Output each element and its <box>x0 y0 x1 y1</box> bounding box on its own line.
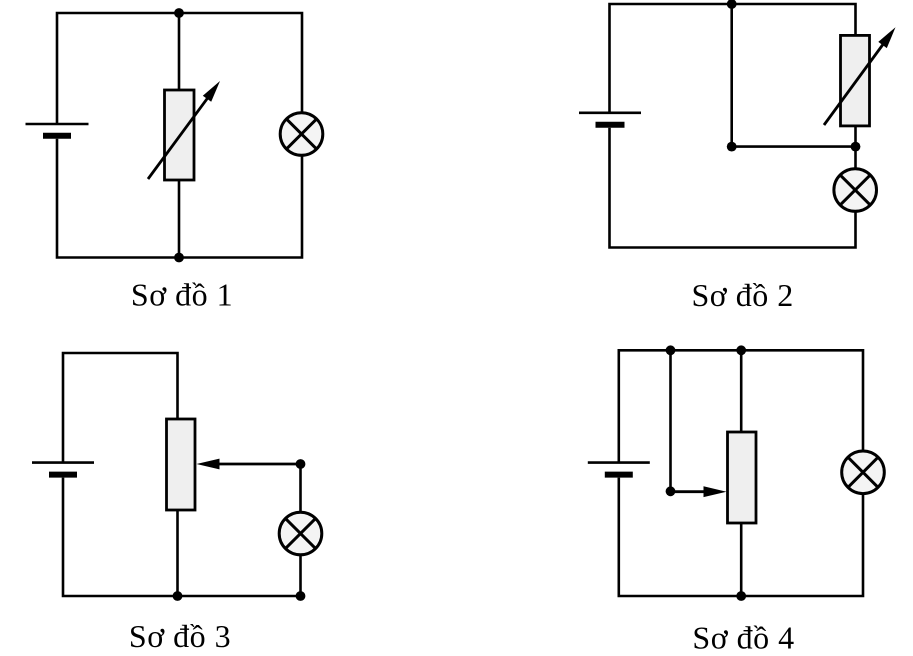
svg-text:Sơ đồ 2: Sơ đồ 2 <box>691 277 793 313</box>
node: middle junction D2 <box>727 142 737 152</box>
svg-text:Sơ đồ 1: Sơ đồ 1 <box>131 277 233 313</box>
lamp L3 <box>279 512 322 555</box>
wire: pot branch lower D3 <box>176 510 179 596</box>
lamp L1 <box>280 113 323 156</box>
battery B1 short plate <box>43 133 71 139</box>
node: top junction D2 <box>727 0 737 9</box>
wire: wiper branch vertical D4 <box>669 350 672 491</box>
potentiometer R3 body <box>167 419 196 510</box>
node: wiper junction D3 <box>296 459 306 469</box>
node: lamp bottom junction D3 <box>296 591 306 601</box>
wire: lower loop run D2 (right wire from lamp, bottom wire, left wire to battery) <box>610 128 856 248</box>
battery B4 long plate <box>588 461 650 464</box>
battery B1 long plate <box>26 123 89 126</box>
battery B2 long plate <box>579 112 641 115</box>
wire: pot branch upper D4 <box>740 350 743 432</box>
node: top junction D1 <box>174 8 184 18</box>
wire: lower loop run D3 (left wire from battery, bottom wire) <box>63 478 301 596</box>
battery B3 long plate <box>32 461 94 464</box>
variable resistor R1 arrow <box>148 81 220 179</box>
node: top junction B D4 <box>736 345 746 355</box>
battery B4 short plate <box>605 472 633 478</box>
variable resistor R1 body <box>165 90 195 180</box>
wire: lamp branch lower D3 <box>299 555 302 596</box>
wire: middle branch upper D1 <box>178 13 181 90</box>
wire: upper loop run D2 (left wire, top wire, right wire to resistor) <box>610 4 856 113</box>
node: top junction A D4 <box>666 345 676 355</box>
node: wiper junction D4 <box>666 486 676 496</box>
wire: lamp branch upper D3 <box>299 464 302 512</box>
potentiometer R4 body <box>728 432 757 523</box>
potentiometer R3 wiper arrow <box>197 459 301 470</box>
wire: lower loop run D1 (right wire from lamp, bottom wire, left wire to battery) <box>57 139 302 258</box>
node: right junction D2 <box>851 142 861 152</box>
node: bottom junction D4 <box>736 591 746 601</box>
node: bottom junction D1 <box>174 253 184 263</box>
wire: upper loop run D4 (left wire, top wire, right wire to lamp) <box>619 350 863 462</box>
variable resistor R2 arrow <box>824 27 896 125</box>
svg-text:Sơ đồ 4: Sơ đồ 4 <box>692 619 794 655</box>
wire: pot branch lower D4 <box>740 523 743 596</box>
wire: middle branch lower D1 <box>178 180 181 258</box>
wire: upper loop run D1 (left wire, top wire, right wire to lamp) <box>57 13 302 124</box>
lamp L2 <box>834 169 877 212</box>
node: pot bottom junction D3 <box>173 591 183 601</box>
potentiometer R4 wiper arrow <box>671 486 727 497</box>
battery B2 short plate <box>596 122 625 128</box>
lamp L4 <box>842 451 885 494</box>
variable resistor R2 body <box>841 35 870 126</box>
wire: lower loop run D4 (right wire from lamp, bottom wire, left wire to battery) <box>619 478 863 596</box>
wire: upper loop run D3 (left wire, top wire, pot branch to body) <box>63 353 178 463</box>
wire: middle branch and horizontal wire D2 <box>732 4 856 147</box>
svg-text:Sơ đồ 3: Sơ đồ 3 <box>129 618 231 654</box>
wire: resistor to lamp D2 <box>854 126 857 169</box>
battery B3 short plate <box>49 472 77 478</box>
